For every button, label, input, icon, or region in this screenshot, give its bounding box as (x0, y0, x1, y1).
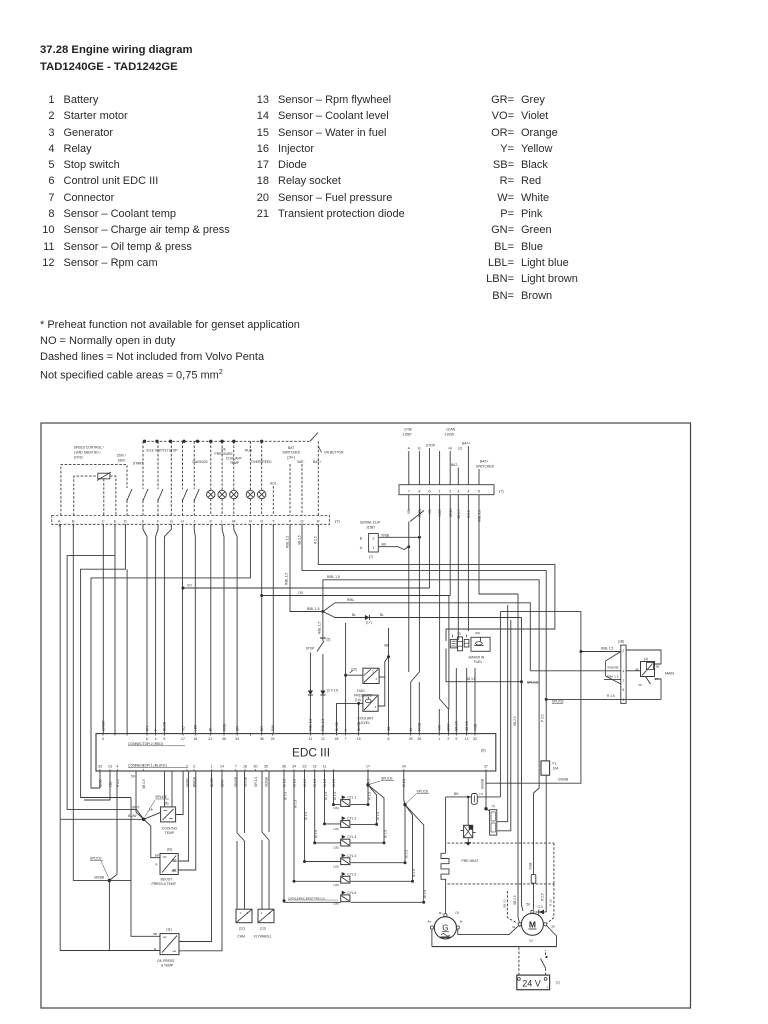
svg-text:H: H (181, 519, 184, 523)
diodes (2 X 17) (308, 689, 339, 696)
border frame of schematic (41, 423, 691, 1008)
svg-text:SB: SB (384, 644, 388, 648)
op-amp EDC III control unit box (96, 734, 496, 771)
svg-text:R/BL 1.0: R/BL 1.0 (309, 718, 313, 731)
switch on W lines 25 26 (411, 672, 420, 734)
svg-text:SPLICE: SPLICE (155, 795, 168, 799)
svg-text:24: 24 (271, 737, 275, 741)
svg-text:SB: SB (149, 808, 153, 812)
svg-text:E: E (142, 519, 145, 523)
svg-text:COOLING: COOLING (162, 827, 178, 831)
svg-text:CYL 1: CYL 1 (347, 796, 356, 800)
svg-text:2: 2 (376, 677, 378, 681)
wire K to EDC pin 21 (210, 524, 212, 733)
wire B to splice column (73, 524, 109, 880)
wire E to EDC pin 6 (143, 524, 147, 733)
svg-text:ER: ER (155, 853, 160, 857)
wire A to oil sensor feed (long left column) (60, 524, 160, 950)
wire 1B pin1 left (604, 679, 621, 681)
svg-text:18: 18 (243, 765, 247, 769)
svg-text:24: 24 (402, 765, 406, 769)
wire fan to R/BL branch rail (323, 598, 530, 671)
svg-text:R 10: R 10 (549, 899, 553, 906)
svg-text:W 1.5: W 1.5 (367, 792, 371, 800)
svg-text:R/Y: R/Y (145, 725, 149, 731)
svg-text:(7): (7) (479, 792, 483, 796)
wire top pin 8 down line B (418, 495, 420, 672)
svg-text:A: A (360, 546, 363, 550)
svg-text:22: 22 (313, 765, 317, 769)
svg-text:BOOST: BOOST (161, 877, 173, 881)
wire EDC pin 7 Y to fuel pressure sensor (344, 623, 363, 734)
svg-text:PRE-HEAT: PRE-HEAT (462, 859, 479, 863)
svg-text:W 1.5: W 1.5 (404, 850, 408, 858)
svg-text:GR: GR (235, 726, 239, 731)
svg-text:R/BL 1.5: R/BL 1.5 (285, 535, 289, 548)
svg-text:SB 1.5: SB 1.5 (466, 677, 476, 681)
svg-text:W 1.5: W 1.5 (304, 812, 308, 820)
svg-text:W 1.5: W 1.5 (324, 792, 328, 800)
svg-text:21: 21 (208, 737, 212, 741)
svg-text:36: 36 (282, 765, 286, 769)
svg-text:STOP: STOP (306, 647, 316, 651)
wire starter motor left terminal stub (519, 926, 521, 927)
wire EDC conn1 pin 4 down to GN/SB splice (109, 771, 117, 880)
svg-text:VO/SB: VO/SB (264, 777, 268, 787)
wires oil sensor right to EDC (179, 771, 222, 951)
svg-text:5: 5 (623, 688, 625, 692)
svg-text:HI: HI (448, 447, 451, 451)
label 5V (131, 775, 136, 779)
svg-text:TEMP: TEMP (165, 831, 175, 835)
svg-text:(16): (16) (333, 846, 339, 850)
svg-text:(7): (7) (335, 520, 340, 524)
wire fan up rail R/BL 1.5 right (323, 580, 539, 875)
svg-text:SB 2.5: SB 2.5 (513, 716, 517, 726)
svg-text:R 2.5: R 2.5 (541, 893, 545, 901)
wire N step-left ladder to pin 33 rail (91, 524, 250, 788)
wires cooling temp to EDC pins (165, 771, 184, 815)
svg-text:1: 1 (623, 678, 625, 682)
wire GN/SB from EDC pin 37 up right loop (481, 612, 581, 789)
junction serial BN (407, 545, 410, 548)
svg-text:R 2.5: R 2.5 (467, 510, 471, 518)
svg-text:6: 6 (428, 489, 430, 493)
svg-text:7: 7 (235, 765, 237, 769)
svg-text:12: 12 (321, 737, 325, 741)
wire F to EDC pin 4 (156, 524, 158, 733)
labels wire colours below top right connector (407, 507, 482, 522)
svg-text:SB 2.5: SB 2.5 (513, 895, 517, 905)
svg-text:26: 26 (417, 737, 421, 741)
label BAT+ (313, 460, 321, 464)
wire M to EDC pin 34 (234, 524, 237, 733)
junction splice on BL rail column (520, 680, 540, 684)
label 1708 J1587 (403, 428, 412, 437)
svg-text:TEMP: TEMP (230, 461, 240, 465)
sensor rpm cam (12) (236, 909, 252, 938)
svg-text:BAT+: BAT+ (313, 460, 321, 464)
svg-text:SWITCHED: SWITCHED (283, 451, 301, 455)
wire 1B pin2 to relay 86 (626, 650, 661, 664)
wire serial clip pin2 R/SB to line B (378, 533, 419, 537)
svg-text:R/BL 1.5: R/BL 1.5 (327, 575, 340, 579)
svg-text:K: K (210, 519, 213, 523)
wires columns 9 12 32 up from EDC (456, 668, 475, 734)
wires flywheel sensor to EDC with switch (262, 771, 269, 909)
svg-text:(11): (11) (166, 927, 171, 931)
svg-text:B+: B+ (439, 911, 443, 915)
svg-text:B+: B+ (428, 920, 432, 924)
svg-text:5: 5 (143, 765, 145, 769)
label 5V feed and wire to splice (136, 771, 144, 819)
switch on speed control line D (127, 489, 132, 501)
svg-text:J1939: J1939 (445, 432, 454, 436)
svg-text:BL: BL (209, 727, 213, 731)
wires diodes to EDC pins 11 12 (310, 695, 323, 734)
sensor fuel pressure (20)(14) (350, 668, 380, 703)
label BAT+ (462, 441, 470, 445)
svg-text:G: G (442, 923, 448, 932)
svg-text:+: + (547, 985, 549, 989)
svg-text:BL: BL (380, 613, 384, 617)
svg-text:R/BL 1.5: R/BL 1.5 (601, 646, 614, 650)
connector serial clip J1587 (360, 521, 381, 559)
svg-text:P/W: P/W (271, 725, 275, 731)
svg-text:CYL 2: CYL 2 (347, 817, 356, 821)
label 1500 / 1800 (117, 454, 126, 463)
label BAT- (451, 463, 458, 467)
wire H to EDC pin 17 VO column (182, 524, 184, 733)
svg-text:1CAN: 1CAN (446, 428, 456, 432)
svg-text:LOAD SHER NO /: LOAD SHER NO / (74, 451, 101, 455)
injectors CYL 1-6 group (333, 795, 356, 905)
wire battery plus dashed with disconnect switch (541, 950, 548, 975)
label R 1.5 wire R (314, 536, 318, 544)
svg-text:(7): (7) (457, 632, 461, 636)
wire colour labels above EDC connector 2 (101, 718, 477, 731)
svg-text:34: 34 (292, 765, 296, 769)
wires injector left feeds from EDC connector 1 (293, 771, 341, 883)
sensor cooling temp (8) (144, 802, 178, 836)
svg-text:T: T (272, 519, 275, 523)
wire top pin 1 down (439, 495, 441, 699)
svg-text:OR: OR (298, 591, 304, 595)
svg-text:SPLICE: SPLICE (90, 856, 103, 860)
svg-text:(7): (7) (492, 804, 496, 808)
svg-text:Y/SB: Y/SB (529, 863, 533, 870)
svg-text:(15): (15) (475, 631, 481, 635)
svg-text:B: B (72, 519, 75, 523)
wire R/BL 1.5 to 1B pin 2 (579, 646, 620, 653)
svg-text:4: 4 (467, 489, 469, 493)
svg-text:3: 3 (102, 737, 104, 741)
sensor boost press and temp (10) (152, 848, 179, 886)
pin numbers EDC connector 1 (98, 765, 488, 772)
wire P R/BL 1.5 down to fan node (285, 524, 323, 611)
svg-text:LO: LO (458, 447, 463, 451)
svg-text:GR/SB: GR/SB (243, 777, 247, 787)
labels A B STOP HI LO (408, 444, 463, 451)
svg-text:VO: VO (428, 509, 432, 514)
svg-text:38: 38 (260, 737, 264, 741)
svg-text:FLYWHEEL: FLYWHEEL (254, 934, 272, 938)
svg-text:CYL 6: CYL 6 (347, 891, 356, 895)
svg-text:SB: SB (387, 727, 391, 731)
svg-text:GR/OR: GR/OR (101, 720, 105, 731)
svg-text:GN/SB: GN/SB (558, 778, 569, 782)
svg-text:2: 2 (449, 489, 451, 493)
relay (4) MAIN (635, 657, 674, 687)
pin numbers EDC connector 2 (102, 734, 477, 742)
svg-text:B-: B- (460, 920, 463, 924)
svg-text:8: 8 (418, 489, 420, 493)
label 50 at starter (526, 903, 530, 907)
junction splice W 1.5 pin17 (366, 771, 394, 805)
svg-text:W 1.5: W 1.5 (423, 890, 427, 898)
transient protection diode (21) (536, 905, 547, 915)
svg-text:34: 34 (235, 737, 239, 741)
svg-text:7: 7 (345, 737, 347, 741)
svg-text:VO: VO (181, 726, 185, 731)
svg-text:BL/SB: BL/SB (357, 722, 361, 731)
svg-text:P 2.5: P 2.5 (541, 714, 545, 722)
svg-text:R 1.5: R 1.5 (116, 779, 120, 787)
svg-text:1: 1 (372, 546, 374, 550)
svg-text:11: 11 (309, 737, 313, 741)
svg-text:J1587: J1587 (403, 432, 412, 436)
wire BN rail column down (499, 612, 501, 797)
wire relay socket to preheat dashed (465, 838, 472, 846)
wire top pin 3 SB 2.5 down (457, 495, 459, 640)
svg-text:CATALERAC EROTYPE-CO: CATALERAC EROTYPE-CO (288, 896, 326, 900)
wire fan to diode BL rail (323, 612, 523, 912)
generator G (3) (428, 910, 463, 939)
junction splice2 on fuse column (545, 698, 565, 704)
wire fan down to stop switch (318, 612, 323, 639)
wires EDC conn1 pins 33 13 left jogs (84, 771, 110, 800)
junction dots on supply bus (143, 440, 264, 443)
wire SB 2.5 into left terminal (513, 594, 520, 922)
preheat element dashed box with zigzag (441, 843, 554, 884)
wire L to EDC pin 35 (222, 524, 224, 733)
labels W 1.5 injector wires (283, 792, 427, 898)
svg-text:W 1.5: W 1.5 (314, 830, 318, 838)
label BAT- (298, 460, 305, 464)
wires dashed control lines with switches (143, 441, 199, 515)
junction R/BL 1.5 fan node (307, 607, 325, 613)
label CONNECTOR 2 (RED) (128, 742, 185, 746)
svg-text:-: - (514, 985, 515, 989)
svg-text:GN/Y: GN/Y (447, 722, 451, 731)
svg-text:(17): (17) (366, 621, 372, 625)
wire 1B pin3 R 1.5 rail to splice (546, 694, 661, 699)
svg-text:(2 X 17): (2 X 17) (327, 689, 338, 693)
label BAT+ SWITCHED (476, 460, 495, 469)
wires stubs above top right connector (409, 446, 479, 485)
wire splice right to SB riser (109, 879, 131, 881)
svg-text:SB 10: SB 10 (503, 899, 507, 908)
starter motor M (2) (512, 910, 555, 942)
wire Q SB route right to fuse F1 (302, 524, 546, 761)
wire top pin 4 R 2.5 down (467, 495, 469, 631)
svg-text:SB: SB (153, 932, 157, 936)
wire dashed line ON BUTTON to R (317, 441, 319, 515)
svg-text:W 1.5: W 1.5 (383, 830, 387, 838)
svg-text:R/BL 1.5: R/BL 1.5 (318, 621, 322, 634)
svg-text:1: 1 (261, 911, 263, 915)
wire dashed R 10 from preheat edge (547, 899, 554, 923)
svg-text:9: 9 (455, 737, 457, 741)
wire G to EDC pin 5 (164, 524, 171, 733)
svg-text:SPLICE: SPLICE (381, 776, 394, 780)
svg-text:J1587: J1587 (366, 525, 375, 529)
svg-text:(2): (2) (529, 938, 533, 942)
svg-text:SWITCHED: SWITCHED (476, 464, 495, 468)
node top dashed supply bus (143, 440, 310, 442)
label (6) EDC designator (481, 749, 486, 753)
svg-text:(6): (6) (481, 749, 486, 753)
stop switch (5) (306, 638, 331, 652)
junction serial R/SB (418, 536, 421, 539)
svg-text:31: 31 (512, 925, 516, 929)
switch on lines 1 2 (439, 699, 448, 734)
wire splice GN/SB down to oil R rail (108, 880, 110, 950)
svg-text:(21): (21) (537, 905, 543, 909)
svg-text:J: J (193, 519, 195, 523)
wire top pin 5 R/BL 1.5 down and to preheat feed (479, 495, 518, 594)
svg-text:R/W/SB: R/W/SB (607, 666, 618, 670)
svg-text:(16): (16) (333, 806, 339, 810)
label R/BL 1.5 on rail (327, 575, 340, 579)
label IDLE SWITCH STOP (147, 449, 179, 453)
svg-text:25: 25 (409, 737, 413, 741)
sensor rpm flywheel (13) (254, 909, 274, 938)
svg-text:R 1.5: R 1.5 (314, 536, 318, 544)
svg-text:6: 6 (146, 737, 148, 741)
svg-text:24 V: 24 V (522, 979, 541, 989)
wire O to EDC pin 38 OR column (261, 524, 263, 733)
svg-text:5V: 5V (131, 775, 136, 779)
svg-text:CONNECTOR 2 (RED): CONNECTOR 2 (RED) (128, 742, 163, 746)
junction splice cooling (142, 795, 169, 821)
label BAT SWITCHED (15+) (283, 446, 301, 460)
svg-text:W: W (409, 728, 413, 731)
svg-text:4: 4 (117, 765, 119, 769)
svg-text:W 1.5: W 1.5 (283, 792, 287, 800)
svg-text:1: 1 (211, 765, 213, 769)
svg-text:(7): (7) (499, 489, 504, 493)
svg-text:LEVEL: LEVEL (360, 721, 370, 725)
svg-text:STOP: STOP (426, 444, 436, 448)
switch blade on STOP line (410, 511, 424, 522)
svg-text:R/BL 1.5: R/BL 1.5 (307, 607, 320, 611)
wire preheat right dashed down (553, 884, 555, 909)
svg-text:(12): (12) (239, 926, 245, 930)
svg-text:(16): (16) (333, 883, 339, 887)
svg-text:B3: B3 (173, 859, 177, 863)
svg-text:SPLICE: SPLICE (552, 700, 565, 704)
wire EDC pin 18 BL/SB to coolant level sensor (337, 702, 363, 734)
speed control outer dashed box (61, 465, 127, 516)
label SB 2.5 wire upper (513, 716, 517, 726)
svg-text:2: 2 (623, 649, 625, 653)
svg-text:30: 30 (254, 765, 258, 769)
svg-text:W/BL: W/BL (222, 723, 226, 731)
svg-text:3: 3 (193, 765, 195, 769)
svg-text:SYNC.: SYNC. (74, 455, 84, 459)
svg-text:BL: BL (352, 613, 356, 617)
svg-text:GREY: GREY (449, 507, 453, 517)
svg-text:11: 11 (323, 765, 327, 769)
twisted pair symbol at 1B (606, 652, 621, 685)
svg-text:SOL: SOL (270, 482, 277, 486)
svg-text:R/BL 1.5: R/BL 1.5 (607, 675, 619, 679)
svg-text:4: 4 (623, 670, 625, 674)
svg-text:Q: Q (301, 519, 304, 523)
wire catalerac line to CYL 6 (283, 771, 341, 902)
svg-text:IDLE SWITCH STOP: IDLE SWITCH STOP (147, 449, 179, 453)
svg-text:1708: 1708 (404, 428, 412, 432)
svg-text:ON BUTTON: ON BUTTON (324, 450, 344, 454)
label OIL PRESSURE (215, 447, 234, 456)
svg-text:P: P (289, 519, 292, 523)
svg-text:30: 30 (552, 924, 556, 928)
svg-text:R/BL 1.5: R/BL 1.5 (285, 572, 289, 585)
wires dashed control lines with indicator lamps (207, 441, 266, 515)
svg-text:GN/SB: GN/SB (94, 876, 104, 880)
svg-text:O: O (260, 519, 263, 523)
wires splice1 to CYL right pins (351, 785, 386, 845)
svg-text:1: 1 (240, 911, 242, 915)
svg-text:37: 37 (484, 765, 488, 769)
wire R rail to water in fuel drop (318, 524, 555, 641)
wire T to EDC pin 24 (272, 524, 274, 733)
svg-text:B: B (418, 447, 421, 451)
svg-text:5: 5 (163, 737, 165, 741)
svg-text:EDC III: EDC III (292, 746, 330, 760)
label SPEED CONTROL / LOAD SHARING / SYNC (74, 446, 104, 460)
wires boost sensor right to EDC (178, 771, 196, 870)
svg-text:F1: F1 (553, 762, 557, 766)
svg-text:FUEL: FUEL (474, 660, 483, 664)
svg-text:BL/SB: BL/SB (335, 722, 339, 731)
svg-text:3: 3 (457, 489, 459, 493)
junction splice W 1.5 pin24 (403, 771, 429, 806)
svg-text:12: 12 (465, 737, 469, 741)
wire generator B- to starter 31 (458, 926, 519, 935)
wire BN with inline fuse to preheat relay (446, 792, 501, 805)
svg-text:(1): (1) (556, 980, 560, 984)
svg-text:SB 1.5: SB 1.5 (142, 779, 146, 789)
svg-text:(13): (13) (260, 926, 266, 930)
svg-text:GR 1.0: GR 1.0 (254, 777, 258, 787)
label SB 1.5 wire Q (297, 535, 301, 545)
wire top pin 7 down line A (408, 495, 410, 672)
wire Y/SB with inline fuse to motor 50 (529, 863, 536, 910)
svg-text:COOLANT: COOLANT (358, 717, 374, 721)
svg-text:L: L (221, 519, 223, 523)
svg-text:B: B (360, 537, 363, 541)
svg-text:(14): (14) (355, 698, 361, 702)
svg-text:W 1.5: W 1.5 (412, 869, 416, 877)
svg-text:1500 /: 1500 / (117, 454, 126, 458)
ground bus wire bottom (432, 946, 557, 948)
svg-text:RUN: RUN (245, 449, 253, 453)
svg-text:(16): (16) (333, 864, 339, 868)
svg-text:SB 1.5: SB 1.5 (297, 535, 301, 545)
svg-text:8: 8 (388, 737, 390, 741)
